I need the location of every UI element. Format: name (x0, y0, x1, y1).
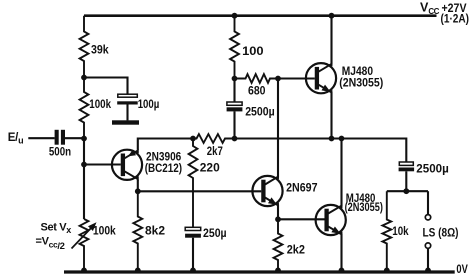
svg-text:100: 100 (242, 46, 264, 58)
svg-text:(2N3055): (2N3055) (339, 77, 383, 89)
svg-text:(1·2A): (1·2A) (441, 14, 470, 26)
svg-text:2N3906: 2N3906 (146, 151, 181, 163)
svg-text:2k2: 2k2 (287, 245, 305, 257)
svg-text:2500µ: 2500µ (245, 107, 275, 119)
svg-text:8k2: 8k2 (145, 225, 165, 237)
svg-text:2N697: 2N697 (286, 183, 317, 195)
svg-text:39k: 39k (91, 45, 109, 57)
svg-text:LS (8Ω): LS (8Ω) (423, 228, 459, 240)
svg-text:500n: 500n (49, 146, 71, 158)
svg-text:220: 220 (200, 163, 220, 175)
svg-text:0V: 0V (456, 264, 468, 276)
svg-text:2500µ: 2500µ (416, 164, 449, 176)
svg-text:100k: 100k (93, 225, 116, 237)
svg-text:680: 680 (248, 85, 266, 97)
svg-text:10k: 10k (392, 226, 409, 238)
svg-text:(BC212): (BC212) (145, 163, 183, 175)
svg-text:MJ480: MJ480 (342, 66, 373, 78)
svg-text:2k7: 2k7 (207, 146, 223, 158)
svg-text:100µ: 100µ (138, 99, 160, 111)
svg-text:250µ: 250µ (203, 228, 227, 240)
svg-text:100k: 100k (89, 99, 111, 111)
svg-text:(2N3055): (2N3055) (345, 202, 383, 214)
